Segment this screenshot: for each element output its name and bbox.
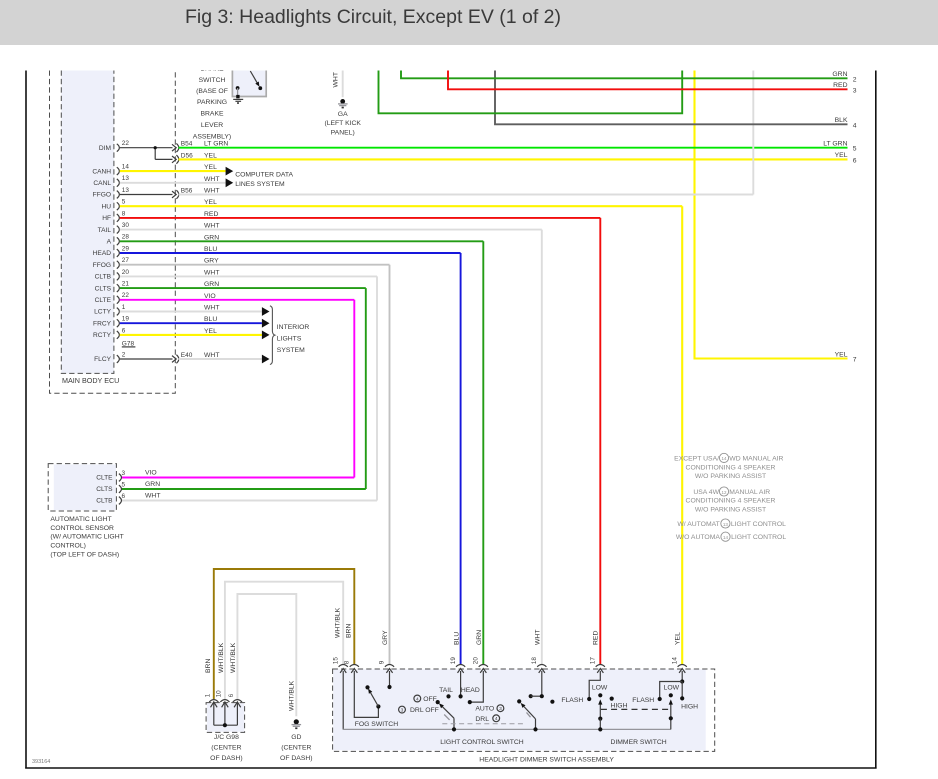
wire CLTB WHT down to sensor xyxy=(120,276,377,500)
automatic light control sensor box xyxy=(48,464,116,511)
svg-text:FFGO: FFGO xyxy=(93,192,111,199)
fog switch xyxy=(354,671,398,728)
svg-text:20: 20 xyxy=(122,269,130,276)
svg-text:HF: HF xyxy=(102,215,111,222)
svg-text:GRN: GRN xyxy=(204,234,219,241)
svg-text:13: 13 xyxy=(723,522,729,527)
svg-text:VIO: VIO xyxy=(145,469,157,476)
svg-text:FOG SWITCH: FOG SWITCH xyxy=(355,721,399,728)
svg-text:CLTB: CLTB xyxy=(95,274,112,281)
svg-text:BLU: BLU xyxy=(453,632,460,645)
svg-text:RED: RED xyxy=(204,211,218,218)
main body ecu outer dashed box xyxy=(50,71,176,394)
svg-text:OF DASH): OF DASH) xyxy=(210,755,242,762)
svg-text:COMPUTER DATA: COMPUTER DATA xyxy=(235,172,293,179)
parking brake switch text xyxy=(193,66,231,141)
GA WHT wire xyxy=(333,71,343,98)
svg-text:WHT: WHT xyxy=(333,72,340,87)
svg-text:HEAD: HEAD xyxy=(93,250,112,257)
svg-text:INTERIOR: INTERIOR xyxy=(277,324,310,331)
wire CANL WHT to lines system arrow xyxy=(120,182,226,184)
svg-text:17: 17 xyxy=(590,657,597,665)
svg-text:14: 14 xyxy=(721,456,727,461)
svg-text:SWITCH: SWITCH xyxy=(199,77,226,84)
svg-text:TAIL: TAIL xyxy=(439,687,453,694)
svg-text:CANH: CANH xyxy=(92,168,111,175)
wire B54 LT GRN row to right exit 5 xyxy=(179,147,848,149)
svg-text:LOW: LOW xyxy=(664,685,680,692)
ground GA (left kick panel) xyxy=(324,99,361,136)
dimmer switch side 1 xyxy=(587,671,614,732)
svg-text:PARKING: PARKING xyxy=(197,99,227,106)
svg-text:WHT: WHT xyxy=(534,630,541,645)
svg-text:PANEL): PANEL) xyxy=(331,129,355,136)
svg-text:28: 28 xyxy=(122,234,130,241)
svg-text:LOW: LOW xyxy=(592,685,608,692)
svg-text:OFF: OFF xyxy=(423,696,437,703)
light control switch lever 1 xyxy=(439,703,456,731)
section labels xyxy=(440,739,667,764)
wire RED to right exit 3 xyxy=(448,71,848,90)
svg-text:7: 7 xyxy=(853,357,857,364)
svg-text:(LEFT KICK: (LEFT KICK xyxy=(324,120,361,127)
svg-text:WHT: WHT xyxy=(145,492,160,499)
svg-text:CONTROL SENSOR: CONTROL SENSOR xyxy=(50,525,114,532)
svg-text:21: 21 xyxy=(122,281,130,288)
wire YEL from top to right exit 7 xyxy=(695,71,848,359)
svg-text:8: 8 xyxy=(344,660,351,664)
wire GRN to right exit 2 xyxy=(401,71,848,79)
svg-text:J/C G98: J/C G98 xyxy=(214,734,239,741)
svg-text:14: 14 xyxy=(723,535,729,540)
svg-text:15: 15 xyxy=(332,657,339,665)
svg-text:2: 2 xyxy=(853,76,857,83)
svg-text:DRL: DRL xyxy=(475,716,489,723)
svg-text:2: 2 xyxy=(122,351,126,358)
svg-text:B54: B54 xyxy=(181,141,193,148)
svg-text:YEL: YEL xyxy=(835,351,848,358)
svg-text:WHT/BLK: WHT/BLK xyxy=(230,642,237,673)
svg-text:W/O AUTOMA: W/O AUTOMA xyxy=(676,534,721,541)
top clip cover xyxy=(0,45,938,71)
svg-text:TAIL: TAIL xyxy=(98,227,112,234)
sensor caption xyxy=(50,516,123,558)
svg-text:MAIN BODY ECU: MAIN BODY ECU xyxy=(62,376,119,385)
svg-text:YEL: YEL xyxy=(675,632,682,645)
svg-text:WHT: WHT xyxy=(204,269,219,276)
svg-text:6: 6 xyxy=(228,693,235,697)
svg-text:(W/ AUTOMATIC LIGHT: (W/ AUTOMATIC LIGHT xyxy=(50,534,123,541)
svg-text:13: 13 xyxy=(122,175,130,182)
svg-text:8: 8 xyxy=(122,210,126,217)
svg-text:13: 13 xyxy=(122,187,130,194)
svg-text:19: 19 xyxy=(122,316,130,323)
GRY BLU GRN WHT RED YEL rotated labels above switch xyxy=(382,630,682,645)
wire colour labels at ECU rows xyxy=(204,141,228,359)
MAIN BODY ECU label xyxy=(62,376,119,385)
wire RCTY YEL to arrow xyxy=(120,334,262,336)
svg-text:12: 12 xyxy=(721,490,727,495)
interior lights system brace xyxy=(270,306,309,365)
wire CANH YEL to computer data arrow xyxy=(120,170,226,172)
svg-text:27: 27 xyxy=(122,257,130,264)
svg-text:GRN: GRN xyxy=(476,630,483,645)
wire E40 WHT to arrow xyxy=(179,358,262,360)
headlight dimmer switch assembly box xyxy=(333,669,715,751)
svg-text:14: 14 xyxy=(671,657,678,665)
svg-text:1: 1 xyxy=(122,304,126,311)
computer data lines system arrows xyxy=(226,167,294,188)
light control switch contacts 2 xyxy=(517,671,554,704)
light control switch lever 2 xyxy=(521,703,538,732)
svg-text:WHT: WHT xyxy=(204,223,219,230)
interior lights system arrows xyxy=(262,307,270,363)
svg-text:RED: RED xyxy=(833,82,847,89)
svg-text:FLCY: FLCY xyxy=(94,356,111,363)
J/C G98 caption xyxy=(210,734,242,762)
svg-text:AUTO: AUTO xyxy=(475,706,494,713)
switch assembly connector pins xyxy=(332,657,686,673)
svg-text:LEVER: LEVER xyxy=(201,122,223,129)
svg-text:GA: GA xyxy=(338,111,348,118)
svg-text:WHT/BLK: WHT/BLK xyxy=(335,607,342,638)
svg-text:GRN: GRN xyxy=(145,481,160,488)
svg-text:CLTE: CLTE xyxy=(95,297,112,304)
J/C G98 box xyxy=(206,703,245,733)
svg-text:5: 5 xyxy=(853,146,857,153)
svg-text:CONTROL): CONTROL) xyxy=(50,543,86,550)
light control switch labels xyxy=(399,687,504,723)
svg-text:GRN: GRN xyxy=(832,71,847,78)
svg-text:RED: RED xyxy=(593,631,600,645)
svg-text:B56: B56 xyxy=(181,188,193,195)
svg-text:USA 4W: USA 4W xyxy=(693,489,719,496)
figure number xyxy=(32,759,50,765)
wire A GRN right then down to pin 20 xyxy=(120,241,484,664)
svg-text:FRCY: FRCY xyxy=(93,320,112,327)
svg-text:10: 10 xyxy=(216,690,223,698)
sensor wire labels xyxy=(145,469,160,499)
parking brake switch ground xyxy=(233,99,243,103)
wire D56 YEL row to right exit 6 xyxy=(179,158,848,160)
ground bus inside assembly xyxy=(343,671,671,729)
wire DIM dark segment with junction to D56 xyxy=(120,146,173,159)
svg-text:DRL OFF: DRL OFF xyxy=(410,707,439,714)
svg-text:(TOP LEFT OF DASH): (TOP LEFT OF DASH) xyxy=(50,551,119,558)
svg-text:LCTY: LCTY xyxy=(94,309,111,316)
svg-text:20: 20 xyxy=(473,657,480,665)
wire CLTE VIO down to sensor xyxy=(120,300,354,478)
svg-text:4: 4 xyxy=(495,716,498,722)
wire B56 WHT right then up to top edge xyxy=(179,71,754,195)
svg-text:WHT/BLK: WHT/BLK xyxy=(288,680,295,711)
svg-text:BLU: BLU xyxy=(204,246,217,253)
svg-text:5: 5 xyxy=(122,199,126,206)
svg-text:19: 19 xyxy=(450,657,457,665)
configuration notes xyxy=(674,453,786,541)
main body ecu inner box xyxy=(61,71,114,374)
svg-text:WHT: WHT xyxy=(204,188,219,195)
svg-text:LIGHT CONTROL: LIGHT CONTROL xyxy=(731,521,786,528)
svg-text:(CENTER: (CENTER xyxy=(281,745,311,752)
svg-text:CLTB: CLTB xyxy=(96,498,113,505)
svg-text:(BASE OF: (BASE OF xyxy=(196,88,228,95)
svg-text:ASSEMBLY): ASSEMBLY) xyxy=(193,134,231,141)
svg-text:AUTOMATIC LIGHT: AUTOMATIC LIGHT xyxy=(50,516,111,523)
parking brake switch box xyxy=(232,70,266,96)
svg-text:RCTY: RCTY xyxy=(93,332,112,339)
svg-text:GRY: GRY xyxy=(382,630,389,645)
svg-text:GD: GD xyxy=(291,734,301,741)
parking brake switch contacts xyxy=(236,71,262,98)
wire FFGO dark segment xyxy=(120,194,173,196)
wire TAIL WHT right then down to pin 18 xyxy=(120,230,542,665)
svg-text:3: 3 xyxy=(853,87,857,94)
svg-text:WHT: WHT xyxy=(204,352,219,359)
svg-text:CLTE: CLTE xyxy=(96,475,113,482)
wire CLTS GRN down to sensor xyxy=(120,288,366,489)
diagram frame bottom border xyxy=(25,767,876,769)
svg-text:WHT: WHT xyxy=(204,176,219,183)
title bar xyxy=(0,0,938,45)
svg-text:(CENTER: (CENTER xyxy=(211,745,241,752)
svg-text:W/O PARKING ASSIST: W/O PARKING ASSIST xyxy=(695,473,766,480)
svg-text:SYSTEM: SYSTEM xyxy=(277,347,305,354)
svg-text:W/O PARKING ASSIST: W/O PARKING ASSIST xyxy=(695,506,766,513)
dimmer labels xyxy=(561,685,698,711)
svg-text:22: 22 xyxy=(122,140,130,147)
svg-text:YEL: YEL xyxy=(835,152,848,159)
svg-text:HEADLIGHT DIMMER SWITCH ASSEMB: HEADLIGHT DIMMER SWITCH ASSEMBLY xyxy=(479,757,614,764)
right edge exit labels xyxy=(823,71,857,363)
svg-text:W/ AUTOMAT: W/ AUTOMAT xyxy=(677,521,719,528)
svg-text:CLTS: CLTS xyxy=(96,486,113,493)
svg-text:22: 22 xyxy=(122,292,130,299)
svg-text:29: 29 xyxy=(122,245,130,252)
light control switch contacts xyxy=(436,671,484,704)
svg-text:CLTS: CLTS xyxy=(95,285,112,292)
svg-text:393164: 393164 xyxy=(32,759,50,765)
svg-text:HEAD: HEAD xyxy=(461,687,480,694)
J/C G98 pins xyxy=(205,690,243,727)
svg-text:6: 6 xyxy=(853,157,857,164)
svg-text:LINES SYSTEM: LINES SYSTEM xyxy=(235,181,285,188)
svg-text:MANUAL AIR: MANUAL AIR xyxy=(729,489,770,496)
svg-text:3: 3 xyxy=(499,706,502,712)
inline connectors B54 D56 B56 E40 xyxy=(172,141,193,364)
svg-text:GRY: GRY xyxy=(204,258,219,265)
wire HU YEL right then down to dimmer pin 14 xyxy=(120,206,682,664)
svg-text:E40: E40 xyxy=(181,352,193,359)
svg-text:WHT: WHT xyxy=(204,305,219,312)
svg-text:FLASH: FLASH xyxy=(632,697,654,704)
svg-text:WD MANUAL AIR: WD MANUAL AIR xyxy=(729,455,783,462)
svg-text:CANL: CANL xyxy=(93,180,111,187)
svg-text:BRN: BRN xyxy=(346,624,353,638)
wire WHT/BLK from J/C pin 6 to ground GD xyxy=(230,594,296,716)
svg-text:A: A xyxy=(107,239,112,246)
wire FFOG GRY right then down to fog pin 9 xyxy=(120,265,390,665)
ECU pin names, arcs and pin numbers xyxy=(92,140,135,363)
wire FRCY BLU to arrow xyxy=(120,322,262,324)
svg-text:BLK: BLK xyxy=(835,117,848,124)
wire WHT/BLK from J/C pin 10 to switch pin 15 xyxy=(218,582,343,699)
svg-text:HIGH: HIGH xyxy=(681,704,698,711)
svg-text:30: 30 xyxy=(122,222,130,229)
svg-text:WHT/BLK: WHT/BLK xyxy=(218,642,225,673)
svg-text:FFOG: FFOG xyxy=(93,262,111,269)
svg-text:BRAKE: BRAKE xyxy=(200,111,224,118)
wire FLCY dark segment xyxy=(120,358,173,360)
diagram frame right border xyxy=(875,71,877,769)
diagram frame left border xyxy=(25,71,27,769)
svg-text:DIM: DIM xyxy=(99,145,111,152)
svg-text:18: 18 xyxy=(531,657,538,665)
wire HF RED right then down to dimmer pin 17 xyxy=(120,218,601,665)
automatic light control sensor pins xyxy=(96,470,125,505)
svg-text:14: 14 xyxy=(122,164,130,171)
svg-text:HIGH: HIGH xyxy=(611,702,628,709)
svg-text:6: 6 xyxy=(122,327,126,334)
svg-text:LIGHTS: LIGHTS xyxy=(277,336,302,343)
svg-text:EXCEPT USA/: EXCEPT USA/ xyxy=(674,455,719,462)
svg-text:6: 6 xyxy=(122,493,126,500)
wire LCTY WHT to interior lights arrow xyxy=(120,311,262,313)
svg-text:BLU: BLU xyxy=(204,316,217,323)
mechanical link dimmer xyxy=(601,708,671,710)
svg-text:FLASH: FLASH xyxy=(561,697,583,704)
svg-text:4: 4 xyxy=(853,122,857,129)
svg-text:3: 3 xyxy=(401,708,404,714)
svg-text:9: 9 xyxy=(379,660,386,664)
svg-text:4: 4 xyxy=(416,696,419,702)
dimmer switch side 2 xyxy=(658,671,685,720)
wire GRN U-shape at top xyxy=(379,71,683,114)
svg-text:HU: HU xyxy=(101,203,111,210)
svg-text:LT GRN: LT GRN xyxy=(204,141,228,148)
svg-text:OF DASH): OF DASH) xyxy=(280,755,312,762)
svg-text:LT GRN: LT GRN xyxy=(823,141,847,148)
wire HEAD BLU right then down to pin 19 xyxy=(120,253,461,664)
svg-text:BRN: BRN xyxy=(205,659,212,673)
svg-text:CONDITIONING 4 SPEAKER: CONDITIONING 4 SPEAKER xyxy=(686,498,776,505)
wire BLK to right exit 4 xyxy=(495,71,848,125)
svg-text:3: 3 xyxy=(122,470,126,477)
ground GD (center of dash) xyxy=(280,719,312,762)
svg-text:1: 1 xyxy=(205,693,212,697)
svg-text:DIMMER SWITCH: DIMMER SWITCH xyxy=(610,739,666,746)
svg-text:GRN: GRN xyxy=(204,281,219,288)
svg-text:5: 5 xyxy=(122,481,126,488)
svg-text:CONDITIONING 4 SPEAKER: CONDITIONING 4 SPEAKER xyxy=(686,464,776,471)
svg-text:LIGHT CONTROL: LIGHT CONTROL xyxy=(731,534,786,541)
svg-text:VIO: VIO xyxy=(204,293,216,300)
svg-text:LIGHT CONTROL SWITCH: LIGHT CONTROL SWITCH xyxy=(440,739,524,746)
mechanical link light control xyxy=(442,723,523,725)
wire BRN from J/C G98 pin 1 to switch pin 8 xyxy=(205,569,354,699)
